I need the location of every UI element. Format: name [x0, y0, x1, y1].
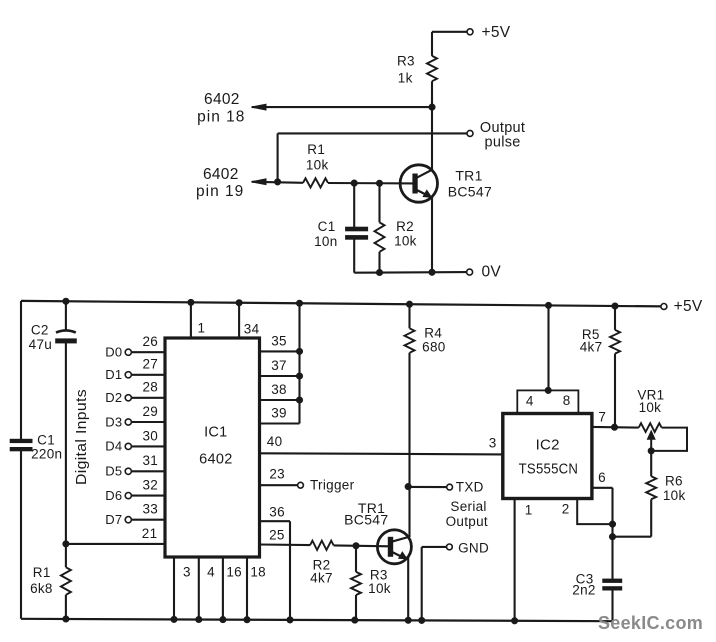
svg-text:4k7: 4k7	[580, 340, 603, 355]
svg-text:TS555CN: TS555CN	[519, 460, 579, 477]
svg-text:6k8: 6k8	[30, 581, 53, 596]
svg-text:4: 4	[207, 565, 215, 580]
svg-text:23: 23	[269, 466, 285, 481]
svg-text:8: 8	[563, 393, 571, 408]
svg-text:C1: C1	[37, 433, 55, 448]
svg-text:2: 2	[562, 502, 570, 517]
svg-text:1: 1	[525, 502, 533, 517]
svg-text:D2: D2	[105, 390, 122, 405]
svg-text:38: 38	[271, 382, 287, 397]
svg-text:680: 680	[422, 340, 445, 355]
svg-text:0V: 0V	[482, 263, 502, 280]
svg-text:Serial: Serial	[450, 499, 486, 514]
svg-text:16: 16	[226, 565, 242, 580]
svg-text:10k: 10k	[394, 233, 417, 248]
svg-text:6: 6	[598, 470, 606, 485]
svg-text:10k: 10k	[306, 158, 329, 173]
svg-text:29: 29	[142, 404, 158, 419]
svg-text:Trigger: Trigger	[310, 477, 355, 492]
svg-text:D5: D5	[105, 464, 122, 479]
svg-text:30: 30	[142, 428, 158, 443]
svg-text:D3: D3	[105, 414, 122, 429]
svg-text:+5V: +5V	[482, 24, 511, 41]
svg-text:+5V: +5V	[674, 298, 703, 315]
svg-text:D1: D1	[105, 367, 122, 382]
svg-text:27: 27	[142, 357, 158, 372]
svg-text:D0: D0	[105, 345, 122, 360]
svg-text:10k: 10k	[663, 488, 686, 503]
svg-text:R3: R3	[397, 53, 415, 68]
svg-text:3: 3	[183, 565, 191, 580]
svg-text:21: 21	[142, 526, 158, 541]
svg-text:BC547: BC547	[448, 183, 492, 199]
svg-text:IC1: IC1	[204, 424, 227, 440]
svg-text:10k: 10k	[639, 400, 662, 415]
svg-text:GND: GND	[458, 541, 489, 556]
svg-text:Output: Output	[446, 514, 488, 529]
svg-text:Digital Inputs: Digital Inputs	[74, 389, 90, 485]
svg-text:Output: Output	[480, 120, 525, 136]
svg-text:IC2: IC2	[536, 437, 560, 454]
svg-text:3: 3	[489, 436, 497, 451]
svg-text:C1: C1	[318, 219, 336, 234]
svg-text:TR1: TR1	[455, 168, 482, 184]
svg-text:TXD: TXD	[456, 479, 484, 494]
svg-text:35: 35	[271, 334, 287, 349]
svg-text:220n: 220n	[31, 447, 62, 462]
svg-text:6402: 6402	[204, 91, 240, 108]
svg-text:1k: 1k	[398, 71, 413, 86]
svg-text:25: 25	[269, 528, 285, 543]
svg-text:28: 28	[142, 380, 158, 395]
svg-text:10k: 10k	[368, 581, 391, 596]
svg-text:SeekIC.com: SeekIC.com	[598, 613, 703, 633]
svg-text:4: 4	[526, 394, 534, 409]
svg-text:18: 18	[250, 565, 266, 580]
svg-text:34: 34	[244, 321, 260, 336]
svg-text:D6: D6	[105, 488, 122, 503]
svg-text:40: 40	[267, 434, 283, 449]
svg-text:pulse: pulse	[485, 135, 521, 151]
svg-text:26: 26	[142, 334, 158, 349]
svg-text:39: 39	[271, 406, 287, 421]
svg-text:4k7: 4k7	[310, 571, 333, 586]
svg-text:47u: 47u	[29, 337, 52, 352]
svg-text:R2: R2	[396, 219, 414, 234]
svg-text:R1: R1	[33, 565, 51, 580]
svg-text:1: 1	[197, 321, 205, 336]
svg-text:6402: 6402	[203, 166, 239, 183]
svg-text:D7: D7	[105, 512, 122, 527]
svg-text:7: 7	[598, 409, 606, 424]
svg-text:pin 19: pin 19	[196, 183, 244, 200]
svg-text:2n2: 2n2	[572, 583, 595, 598]
svg-text:pin 18: pin 18	[197, 108, 245, 125]
svg-text:R4: R4	[424, 326, 442, 341]
svg-text:6402: 6402	[199, 451, 232, 467]
svg-text:C2: C2	[31, 323, 49, 338]
svg-text:32: 32	[142, 478, 158, 493]
svg-text:R1: R1	[307, 142, 325, 157]
svg-text:36: 36	[269, 505, 285, 520]
svg-text:10n: 10n	[314, 234, 337, 249]
svg-text:31: 31	[142, 453, 158, 468]
svg-text:BC547: BC547	[344, 512, 388, 528]
svg-text:R6: R6	[665, 474, 683, 489]
svg-text:37: 37	[271, 358, 287, 373]
svg-text:33: 33	[142, 502, 158, 517]
svg-text:D4: D4	[105, 439, 122, 454]
